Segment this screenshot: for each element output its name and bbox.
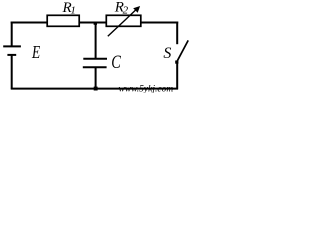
capacitor C bottom plate: [83, 66, 107, 68]
battery E short plate: [7, 54, 16, 56]
wire left vertical upper: [11, 22, 13, 47]
wire top-left horizontal: [11, 22, 47, 24]
wire right vertical lower (from switch): [176, 62, 178, 90]
resistor R1 body: [47, 15, 79, 26]
wire bottom horizontal: [11, 88, 178, 90]
resistor R2 body: [106, 15, 141, 26]
svg-text:2: 2: [123, 4, 129, 16]
svg-text:C: C: [111, 52, 121, 73]
wire capacitor branch lower: [95, 67, 97, 88]
capacitor C top plate: [83, 58, 107, 60]
battery E long plate: [3, 45, 21, 47]
wire right vertical upper (to switch): [176, 22, 178, 45]
svg-text:E: E: [31, 42, 40, 62]
wire capacitor branch upper: [95, 23, 97, 59]
rheostat R2 arrowhead: [133, 6, 140, 13]
svg-text:1: 1: [70, 5, 76, 17]
wire R2 to top-right corner: [142, 22, 179, 24]
rheostat R2 arrow shaft: [108, 9, 137, 37]
switch S blade: [177, 40, 189, 62]
svg-text:S: S: [163, 45, 171, 62]
junction node top (wire to capacitor branch): [94, 22, 97, 25]
switch S pivot dot: [175, 61, 178, 64]
junction node bottom (capacitor branch to bottom wire): [94, 87, 98, 91]
wire left vertical lower: [11, 55, 13, 90]
wire between R1 and R2: [80, 22, 107, 24]
